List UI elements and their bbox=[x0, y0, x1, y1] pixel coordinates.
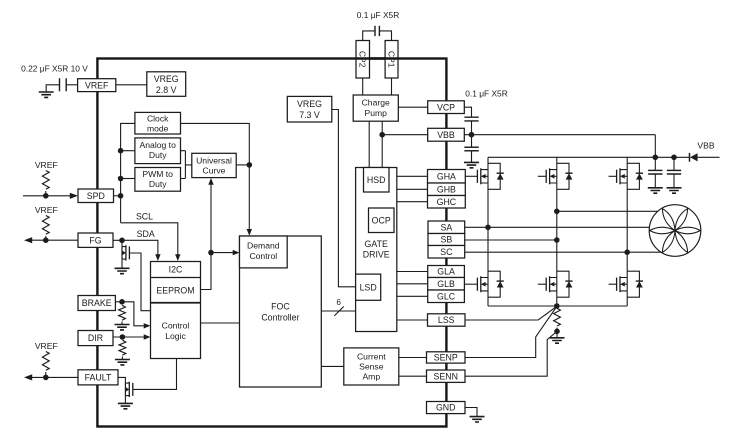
svg-text:GLB: GLB bbox=[437, 279, 455, 289]
svg-text:6: 6 bbox=[336, 298, 341, 307]
wire Universal Curve right bbox=[236, 164, 249, 166]
svg-text:SA: SA bbox=[440, 222, 452, 232]
svg-text:GHB: GHB bbox=[437, 184, 456, 194]
wire phase C to motor bbox=[465, 251, 662, 253]
block Universal Curve bbox=[192, 153, 236, 177]
wire gate drive to GHC bbox=[397, 201, 428, 203]
wire GLB to Q4 gate bbox=[464, 283, 477, 285]
transistor Q4 low-side A bbox=[477, 271, 503, 297]
wire charge pump to HSD left bbox=[368, 121, 370, 167]
bus slash 6 bbox=[334, 307, 343, 316]
pin CP2 bbox=[356, 41, 370, 79]
ground bbox=[470, 417, 485, 422]
pin LSS bbox=[428, 314, 466, 326]
wire GHA to Q1 gate bbox=[465, 175, 477, 177]
node junction bbox=[43, 193, 49, 199]
svg-text:OCP: OCP bbox=[372, 215, 391, 225]
arrow FAULT output bbox=[24, 374, 32, 380]
ground bbox=[115, 268, 130, 273]
wire SPD to bus bbox=[114, 195, 121, 197]
block VREG 7.3 V bbox=[287, 96, 332, 122]
wire VBB supply drop to rail bbox=[654, 135, 656, 158]
svg-text:CP2: CP2 bbox=[358, 51, 368, 68]
wire SENN to sense bottom bbox=[465, 332, 557, 377]
svg-text:VREG: VREG bbox=[297, 99, 322, 109]
arrow BRAKE into Control Logic bbox=[144, 323, 151, 328]
svg-text:Charge: Charge bbox=[362, 98, 390, 108]
pin SB bbox=[428, 234, 465, 246]
node phase B bbox=[554, 209, 560, 215]
svg-text:Amp: Amp bbox=[362, 371, 380, 381]
ground bbox=[550, 338, 565, 343]
node charge pump / VBB bbox=[379, 132, 385, 138]
arrow DIR into Control Logic bbox=[144, 334, 151, 339]
pin FAULT bbox=[78, 370, 118, 385]
node sense top bbox=[554, 303, 560, 309]
svg-text:FG: FG bbox=[89, 235, 101, 245]
block VREG 2.8 V bbox=[147, 72, 186, 97]
pin CP1 bbox=[385, 41, 398, 79]
svg-text:GLC: GLC bbox=[437, 291, 456, 301]
pin SENN bbox=[427, 370, 466, 382]
svg-text:HSD: HSD bbox=[367, 175, 386, 185]
resistor pullup bbox=[42, 216, 49, 235]
capacitor bulk A bbox=[648, 157, 662, 187]
svg-text:Current: Current bbox=[357, 351, 386, 361]
block PWM to Duty bbox=[135, 168, 181, 192]
transistor Q5 low-side B bbox=[546, 271, 572, 297]
svg-text:LSD: LSD bbox=[360, 282, 377, 292]
wire SPD input bbox=[23, 195, 71, 197]
wire gate drive to GLB bbox=[397, 283, 428, 285]
svg-text:GHA: GHA bbox=[437, 171, 456, 181]
block GATE DRIVE bbox=[356, 168, 397, 332]
svg-text:PWM to: PWM to bbox=[142, 169, 173, 179]
svg-text:2.8 V: 2.8 V bbox=[156, 85, 177, 95]
svg-text:Control: Control bbox=[249, 251, 277, 261]
wire SCL bbox=[121, 223, 178, 255]
svg-text:GND: GND bbox=[436, 403, 456, 413]
node bus/analog bbox=[118, 148, 124, 154]
wire CSA to SENN bbox=[399, 375, 427, 377]
svg-text:VBB: VBB bbox=[697, 141, 714, 151]
wire Control Logic to FOC bbox=[201, 322, 240, 324]
wire SB to leg B bbox=[465, 239, 557, 241]
transistor Q2 high-side B bbox=[546, 163, 572, 189]
node bus/SPD bbox=[118, 193, 124, 199]
svg-text:VREF: VREF bbox=[85, 80, 109, 90]
capacitor 0.1uF CP bbox=[375, 26, 379, 36]
svg-text:mode: mode bbox=[147, 124, 169, 134]
pin VREF bbox=[78, 79, 116, 92]
wire FOC to current sense amp bbox=[321, 365, 344, 367]
wire bus to PWM to Duty bbox=[121, 178, 135, 180]
wire speed-input bus bbox=[121, 123, 135, 222]
wire CSA to SENP bbox=[399, 357, 427, 359]
capacitor bulk B bbox=[667, 157, 681, 187]
node FG/SDA bbox=[119, 238, 125, 244]
wire EEPROM to universal curve bbox=[201, 183, 212, 289]
pin VBB bbox=[428, 128, 465, 141]
wire gate drive to LSS bbox=[397, 319, 428, 321]
wire phase leg C bbox=[626, 157, 628, 306]
arrow SDA into I2C bbox=[155, 254, 160, 261]
wire FG fet drain bbox=[121, 240, 123, 246]
IC boundary (device outline) bbox=[97, 59, 446, 427]
node DIR bbox=[120, 334, 126, 340]
svg-text:GLA: GLA bbox=[437, 267, 455, 277]
pin GHC bbox=[428, 196, 466, 209]
wire GND pin to ground bbox=[465, 408, 477, 417]
transistor Q3 high-side C bbox=[617, 163, 643, 189]
wire resistor to ground bbox=[121, 357, 123, 360]
node rail cap B bbox=[671, 155, 677, 161]
wire bus to Analog to Duty bbox=[121, 150, 135, 152]
resistor pullup bbox=[42, 352, 49, 371]
pin SPD bbox=[78, 189, 114, 203]
wire LSS to sense top bbox=[465, 306, 557, 320]
svg-text:FAULT: FAULT bbox=[85, 372, 112, 382]
svg-text:VCP: VCP bbox=[437, 102, 455, 112]
svg-text:LSS: LSS bbox=[438, 315, 455, 325]
svg-text:0.1 μF X5R: 0.1 μF X5R bbox=[465, 89, 508, 99]
ground bbox=[648, 188, 663, 193]
wire resistor lead bbox=[45, 372, 47, 377]
svg-text:Clock: Clock bbox=[147, 114, 169, 124]
svg-text:Sense: Sense bbox=[359, 361, 384, 371]
wire VBB input bbox=[698, 156, 720, 158]
wire SDA bbox=[113, 240, 158, 255]
wire FAULT to fet bbox=[118, 377, 125, 383]
node EEPROM/demand bbox=[208, 250, 214, 256]
arrow into Demand Control bbox=[233, 250, 240, 255]
svg-text:DRIVE: DRIVE bbox=[363, 250, 390, 260]
capacitor VCP 0.1uF bbox=[464, 117, 478, 121]
wire CP2 to charge pump bbox=[362, 78, 364, 95]
block Control Logic bbox=[151, 303, 201, 359]
wire resistor lead bbox=[45, 191, 47, 196]
arrow into Universal Curve bottom bbox=[208, 178, 213, 185]
node junction bbox=[43, 237, 49, 243]
pin BRAKE bbox=[78, 296, 115, 311]
svg-text:Controller: Controller bbox=[261, 313, 299, 323]
ground bbox=[115, 360, 130, 365]
wire FOC to gate drive (6) bbox=[321, 310, 355, 312]
svg-text:GHC: GHC bbox=[437, 197, 457, 207]
svg-text:Control: Control bbox=[162, 321, 190, 331]
resistor pullup bbox=[42, 171, 49, 190]
wire charge pump to VCP bbox=[398, 106, 427, 108]
wire FG fet source to ground bbox=[121, 259, 123, 268]
wire duty blocks to Universal Curve bbox=[181, 151, 192, 179]
pin SC bbox=[428, 246, 465, 259]
wire FAULT fet source to ground bbox=[124, 396, 126, 403]
ground bbox=[39, 92, 54, 97]
block LSD bbox=[356, 274, 381, 300]
svg-text:VREF: VREF bbox=[35, 341, 58, 351]
capacitor VBB 0.1uF bbox=[464, 135, 478, 163]
pin DIR bbox=[78, 331, 113, 346]
pin GND bbox=[427, 402, 466, 414]
node curve/demand bus bbox=[247, 162, 253, 168]
ground bbox=[118, 403, 133, 408]
resistor DIR pulldown bbox=[119, 340, 126, 355]
wire VCP to cap bbox=[464, 107, 471, 116]
transistor FAULT open-drain bbox=[125, 382, 132, 397]
block FOC Controller bbox=[240, 236, 322, 387]
arrow into SPD bbox=[70, 193, 78, 199]
node phase C bbox=[624, 249, 630, 255]
svg-text:I2C: I2C bbox=[169, 265, 183, 275]
wire VREF pin to VREG 2.8 bbox=[116, 84, 147, 86]
wire FAULT output bbox=[30, 376, 78, 378]
svg-text:VBB: VBB bbox=[437, 130, 455, 140]
svg-text:EEPROM: EEPROM bbox=[156, 285, 194, 295]
wire to VBB pin bbox=[382, 134, 428, 136]
wire resistor to ground bbox=[121, 322, 123, 325]
wire gate drive to GLC bbox=[397, 295, 428, 297]
svg-text:Curve: Curve bbox=[203, 166, 226, 176]
wire Clock mode to demand bus bbox=[181, 123, 250, 229]
motor M1 bbox=[649, 205, 701, 257]
svg-text:GATE: GATE bbox=[365, 239, 388, 249]
arrow into Demand Control top bbox=[247, 229, 252, 236]
wire phase leg A bbox=[487, 157, 489, 306]
wire FAULT fet gate from control logic bbox=[133, 359, 177, 390]
wire top rail bbox=[488, 156, 690, 158]
pin GLA bbox=[428, 266, 465, 278]
svg-text:Universal: Universal bbox=[196, 155, 232, 165]
block Charge Pump bbox=[353, 95, 398, 121]
svg-text:SENN: SENN bbox=[434, 371, 458, 381]
wire sense to ground bbox=[556, 331, 558, 337]
wire VREG 7.3 to LSD bbox=[332, 110, 356, 287]
wire phase B to motor bbox=[557, 210, 658, 212]
svg-text:Analog to: Analog to bbox=[140, 140, 177, 150]
wire CP1 to charge pump bbox=[391, 78, 393, 95]
wire SENP to sense top bbox=[465, 307, 557, 358]
arrow SCL into I2C bbox=[175, 254, 180, 261]
node bus/pwm bbox=[118, 176, 124, 182]
block Clock mode bbox=[135, 112, 181, 134]
wire gate drive to GHB bbox=[397, 188, 428, 190]
node phase A bbox=[485, 225, 491, 231]
svg-text:Duty: Duty bbox=[149, 150, 167, 160]
svg-text:SDA: SDA bbox=[137, 229, 155, 239]
pin SA bbox=[428, 221, 465, 234]
wire Q5 gate stub bbox=[538, 283, 546, 285]
pin GLB bbox=[428, 278, 465, 291]
resistor BRAKE pulldown bbox=[119, 305, 126, 320]
wire gate drive to GLA bbox=[397, 271, 428, 273]
diode VBB input bbox=[689, 153, 691, 162]
wire bottom rail bbox=[488, 305, 627, 307]
svg-text:0.22 μF X5R 10 V: 0.22 μF X5R 10 V bbox=[21, 63, 88, 73]
wire cap to VREF pin bbox=[66, 84, 77, 86]
wire CP1 top bbox=[379, 31, 391, 41]
block OCP bbox=[369, 208, 395, 233]
wire cap to ground bbox=[46, 85, 59, 92]
svg-text:DIR: DIR bbox=[88, 333, 103, 343]
resistor sense bbox=[554, 308, 561, 326]
wire gate drive to GHA bbox=[397, 175, 428, 177]
wire BRAKE to control logic bbox=[115, 302, 143, 326]
block HSD bbox=[364, 168, 390, 193]
node BRAKE bbox=[119, 299, 125, 305]
pin GHA bbox=[428, 170, 466, 184]
svg-text:Logic: Logic bbox=[165, 331, 186, 341]
node sense bottom bbox=[554, 329, 560, 335]
wire CP2 top bbox=[363, 31, 375, 41]
wire to Demand Control bbox=[211, 252, 233, 254]
node junction bbox=[43, 375, 49, 381]
transistor FG open-drain bbox=[122, 245, 129, 260]
pin VCP bbox=[428, 101, 465, 114]
block Demand Control bbox=[240, 236, 288, 268]
transistor Q1 high-side A bbox=[477, 163, 503, 189]
wire resistor lead bbox=[45, 236, 47, 240]
wire DIR to control logic bbox=[113, 336, 144, 338]
node rail cap A bbox=[653, 155, 659, 161]
block I2C / EEPROM bbox=[151, 262, 201, 303]
svg-text:SENP: SENP bbox=[434, 353, 458, 363]
wire charge pump to HSD right / VBB bbox=[381, 121, 383, 167]
svg-text:CP1: CP1 bbox=[386, 51, 396, 68]
svg-text:0.1 μF X5R: 0.1 μF X5R bbox=[357, 10, 400, 20]
wire Q6 gate stub bbox=[609, 283, 617, 285]
wire Q2 gate stub bbox=[538, 175, 546, 177]
wire VBB pin to supply bbox=[464, 134, 655, 136]
wire FG output bbox=[30, 239, 78, 241]
svg-text:SCL: SCL bbox=[136, 211, 153, 221]
svg-text:Demand: Demand bbox=[247, 240, 280, 250]
svg-text:VREF: VREF bbox=[35, 205, 58, 215]
svg-text:7.3 V: 7.3 V bbox=[299, 110, 320, 120]
wire FG fet gate from control logic bbox=[129, 253, 150, 311]
wire cap to VBB line bbox=[471, 121, 473, 134]
pin SENP bbox=[427, 352, 466, 363]
svg-text:Duty: Duty bbox=[149, 179, 167, 189]
svg-text:FOC: FOC bbox=[271, 302, 290, 312]
ground bbox=[115, 325, 130, 330]
transistor Q6 low-side C bbox=[617, 271, 643, 297]
svg-text:BRAKE: BRAKE bbox=[82, 298, 112, 308]
svg-text:SC: SC bbox=[440, 247, 453, 257]
svg-text:SPD: SPD bbox=[87, 191, 105, 201]
wire sense bottom bbox=[556, 328, 558, 332]
arrow FG output bbox=[24, 237, 32, 243]
svg-text:VREG: VREG bbox=[154, 74, 179, 84]
svg-text:SB: SB bbox=[440, 235, 452, 245]
block Analog to Duty bbox=[135, 138, 181, 164]
svg-text:Pump: Pump bbox=[364, 108, 387, 118]
wire IC top edge through CP pins bbox=[356, 57, 398, 59]
pin FG bbox=[78, 233, 113, 247]
wire phase A to motor bbox=[465, 226, 650, 228]
node phase B / SB bbox=[554, 237, 560, 243]
node VBB cap bbox=[469, 132, 475, 138]
svg-text:VREF: VREF bbox=[35, 160, 58, 170]
capacitor 0.22uF bbox=[60, 78, 67, 91]
pin GLC bbox=[428, 290, 465, 303]
wire Q3 gate stub bbox=[609, 175, 617, 177]
ground bbox=[464, 162, 479, 167]
ground bbox=[667, 188, 682, 193]
wire phase leg B bbox=[556, 157, 558, 306]
block Current Sense Amp bbox=[344, 348, 399, 385]
pin GHB bbox=[428, 183, 466, 196]
